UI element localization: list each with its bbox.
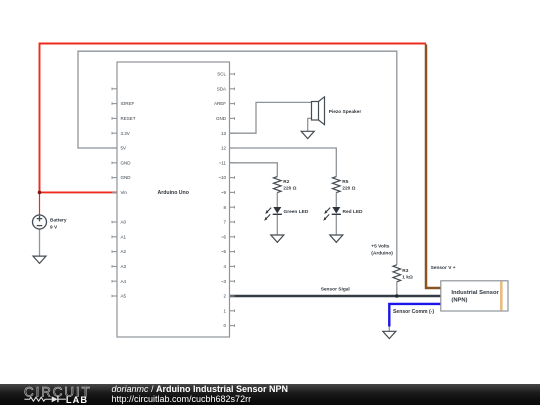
labels: Arduino left pin names	[121, 101, 136, 298]
svg-text:SDA: SDA	[217, 86, 226, 91]
svg-text:Red LED: Red LED	[343, 209, 364, 215]
svg-text:IOREF: IOREF	[121, 101, 135, 106]
industrial sensor box (NPN)	[441, 281, 508, 311]
svg-text:A0: A0	[121, 220, 127, 225]
junction: R3 / signal node	[395, 294, 399, 298]
resistor R2 (220 ohm)	[274, 177, 282, 193]
wire: blue comm ground lead	[388, 327, 390, 332]
battery V1 (9V)	[33, 215, 47, 256]
ground: speaker	[301, 131, 314, 138]
footer credit line	[112, 385, 289, 403]
resistor R3 (1 kOhm)	[393, 265, 401, 282]
ground: sensor comm	[383, 331, 396, 338]
op-amp: none; Arduino Uno U1 body	[117, 62, 230, 337]
svg-text:~5: ~5	[221, 249, 227, 254]
wire: sensor signal (Arduino pin 2 to sensor, dark)	[230, 295, 442, 297]
ground: battery	[33, 256, 46, 263]
svg-text:~10: ~10	[218, 175, 226, 180]
wire: brown Sensor V+ (top right down to sensor)	[426, 44, 441, 288]
svg-text:Vin: Vin	[121, 190, 128, 195]
wire: speaker to ground	[308, 118, 312, 131]
svg-text:Sensor Sigal: Sensor Sigal	[321, 287, 350, 293]
CircuitLab logo	[0, 384, 110, 405]
pins: Arduino right pin end ticks	[234, 73, 236, 327]
wire: D12 to R5 (red LED branch)	[230, 148, 337, 177]
svg-text:3.3V: 3.3V	[121, 131, 130, 136]
svg-text:~9: ~9	[221, 190, 227, 195]
pins: Arduino right side stubs	[230, 74, 235, 326]
LED D2 red	[323, 207, 341, 221]
pins: Arduino left side stubs	[112, 89, 117, 296]
svg-text:A4: A4	[121, 279, 127, 284]
wire: red branch to Arduino Vin	[40, 191, 118, 193]
svg-text:LAB: LAB	[66, 395, 88, 405]
svg-text:(Arduino): (Arduino)	[371, 251, 393, 257]
wire: D13 to piezo speaker	[230, 102, 312, 133]
wire: R2 to green LED and ground lead	[276, 193, 278, 235]
resistor R5 (220 ohm)	[333, 177, 341, 193]
svg-text:A2: A2	[121, 249, 127, 254]
svg-text:~6: ~6	[221, 234, 227, 239]
logo squiggle wire	[24, 397, 51, 401]
svg-text:R2: R2	[283, 179, 289, 185]
wire: R3 bottom lead to signal node	[396, 282, 398, 296]
svg-text:Green LED: Green LED	[284, 209, 309, 215]
wire: red battery + rail (left vertical + top horizontal)	[40, 44, 427, 216]
svg-text:220 Ω: 220 Ω	[342, 186, 355, 192]
ground: red LED	[330, 235, 343, 242]
svg-text:GND: GND	[216, 116, 227, 121]
svg-text:+5 Volts: +5 Volts	[371, 244, 390, 250]
svg-text:Arduino Uno: Arduino Uno	[157, 190, 188, 196]
svg-text:(NPN): (NPN)	[451, 298, 467, 304]
svg-text:1 kΩ: 1 kΩ	[402, 275, 413, 281]
svg-text:Battery: Battery	[50, 218, 67, 224]
wire: R5 to red LED and ground lead	[335, 193, 337, 235]
svg-text:A3: A3	[121, 264, 127, 269]
svg-text:A1: A1	[121, 234, 127, 239]
svg-text:R5: R5	[342, 179, 348, 185]
svg-text:13: 13	[221, 131, 227, 136]
svg-text:A5: A5	[121, 294, 127, 299]
svg-text:Sensor Comm (-): Sensor Comm (-)	[393, 309, 434, 315]
ground: green LED	[271, 235, 284, 242]
LED D1 green	[264, 207, 282, 221]
wire: gray +5V rail from Arduino 5V pin to R3	[78, 51, 397, 265]
svg-text:Sensor V +: Sensor V +	[431, 265, 456, 271]
svg-text:RESET: RESET	[121, 116, 136, 121]
svg-text:SCL: SCL	[217, 72, 226, 77]
piezo speaker SP1	[312, 97, 325, 125]
svg-text:GND: GND	[121, 160, 132, 165]
svg-text:Industrial Sensor: Industrial Sensor	[451, 290, 499, 296]
svg-text:AREF: AREF	[214, 101, 226, 106]
pins: Arduino left pin end ticks	[111, 88, 113, 298]
svg-text:~3: ~3	[221, 279, 227, 284]
junction: battery/Vin node	[38, 191, 42, 195]
svg-text:Piezo Speaker: Piezo Speaker	[329, 109, 362, 115]
wire: blue Sensor Comm (-)	[389, 304, 441, 327]
svg-text:GND: GND	[121, 175, 132, 180]
footer bar	[0, 384, 540, 405]
svg-text:12: 12	[221, 146, 227, 151]
wire: D11 to R2 (green LED branch)	[230, 163, 278, 177]
svg-text:220 Ω: 220 Ω	[283, 186, 296, 192]
sensor box orange stripe	[500, 282, 503, 311]
svg-text:5V: 5V	[121, 146, 127, 151]
svg-text:~11: ~11	[219, 160, 227, 165]
svg-text:R3: R3	[402, 268, 408, 274]
logo diode	[52, 396, 58, 402]
svg-text:9 V: 9 V	[50, 225, 58, 231]
labels: Arduino right pin names	[214, 72, 227, 329]
